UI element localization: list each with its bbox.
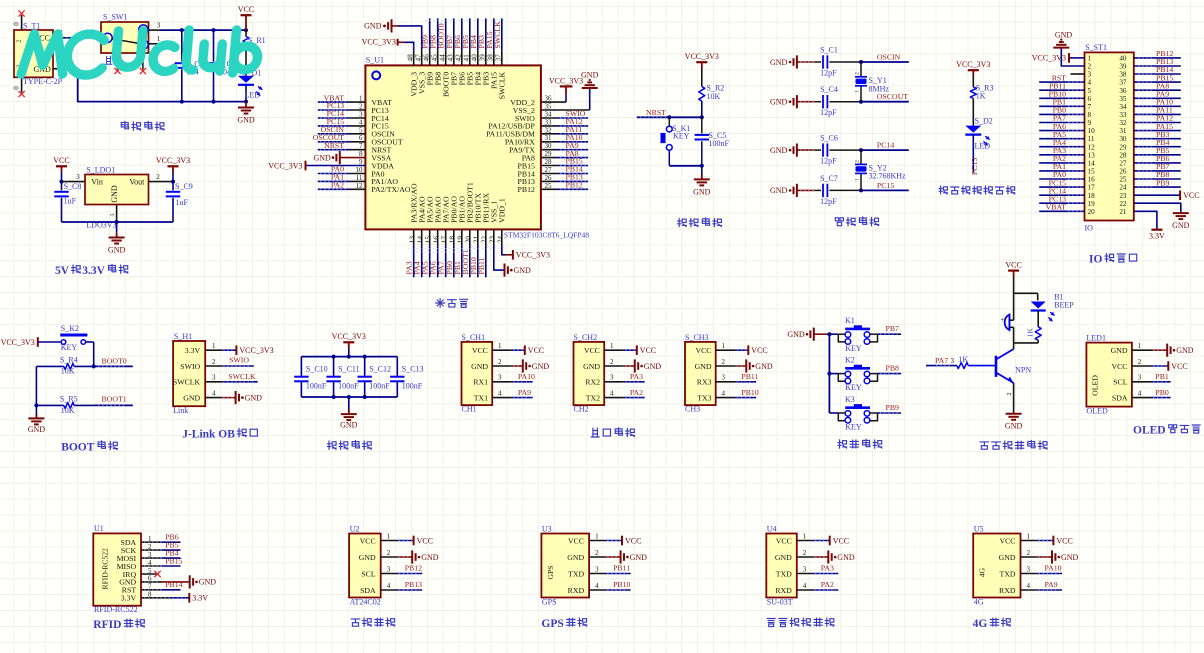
module U3 pin3 [589, 564, 631, 574]
wire VSS_3 to GND [398, 26, 422, 50]
svg-text:11: 11 [356, 174, 363, 182]
svg-text:S_C9: S_C9 [175, 182, 193, 191]
buzzer LS1 [1000, 293, 1013, 343]
module U2 pin4 [381, 580, 423, 590]
svg-text:GND: GND [770, 186, 788, 195]
no-ERC marker T1 top [19, 10, 25, 16]
title 复位电路 [678, 218, 722, 227]
alarm top rail [1014, 293, 1038, 300]
svg-text:3: 3 [803, 566, 807, 574]
svg-text:10: 10 [1088, 127, 1096, 135]
U1 module pin1 PB6 [141, 533, 181, 543]
svg-text:LED: LED [975, 142, 991, 151]
module U2 pin1 [381, 533, 433, 546]
wire VSS_2 to GND [589, 88, 591, 110]
svg-text:AT24C02: AT24C02 [350, 598, 381, 607]
connector CH3 pin2 [716, 358, 773, 373]
wire to Vin pin3 [62, 173, 86, 182]
svg-text:4: 4 [1138, 389, 1142, 397]
key S_K2 [60, 324, 93, 352]
svg-text:3: 3 [387, 566, 391, 574]
svg-text:1uF: 1uF [176, 198, 189, 207]
svg-text:VCC_3V3: VCC_3V3 [956, 60, 990, 69]
bottom rail of LDO [62, 221, 174, 223]
svg-text:6: 6 [1088, 95, 1092, 103]
svg-text:VCC: VCC [776, 536, 792, 545]
title 晶振电路 [835, 217, 879, 226]
svg-text:16: 16 [1088, 176, 1096, 184]
svg-text:32.768KHz: 32.768KHz [869, 172, 907, 181]
H1 pin3 SWCLK [222, 372, 258, 382]
svg-text:PB7: PB7 [886, 324, 900, 333]
junction LDO in [60, 180, 64, 184]
svg-text:VCC: VCC [568, 536, 584, 545]
svg-text:GND: GND [1172, 221, 1190, 230]
svg-text:J-Link OB: J-Link OB [182, 429, 235, 441]
svg-text:GPS: GPS [546, 566, 555, 580]
wire VSS_1 to GND [494, 245, 505, 270]
LED S_D1 [238, 69, 262, 102]
compile mask dashes chip bottom [408, 249, 500, 253]
svg-text:RX1: RX1 [473, 378, 488, 387]
svg-text:TXD: TXD [776, 569, 792, 578]
svg-text:+: + [1000, 316, 1004, 324]
svg-text:35: 35 [1119, 95, 1127, 103]
svg-text:1: 1 [212, 342, 216, 350]
connector CH1 body [462, 333, 493, 414]
svg-text:OLED: OLED [1086, 406, 1108, 415]
svg-text:100nF: 100nF [338, 381, 359, 390]
svg-text:SDA: SDA [360, 586, 376, 595]
module U1 RFID-RC522 body [93, 524, 141, 614]
U1 pin names [371, 72, 535, 223]
svg-text:4: 4 [1088, 79, 1092, 87]
title 串口电路 [591, 428, 635, 437]
svg-text:PB13: PB13 [405, 580, 422, 589]
capacitor S_C13 100nF [390, 357, 423, 397]
svg-text:VCC: VCC [833, 536, 849, 545]
module U2 pin3 [381, 564, 423, 574]
ground GND above ST1 pin2 [1053, 30, 1072, 47]
svg-text:OSCIN: OSCIN [877, 53, 901, 62]
svg-text:26: 26 [1119, 168, 1127, 176]
U1 module pin4 PB15 [141, 556, 183, 566]
svg-text:2: 2 [498, 358, 502, 366]
svg-text:17: 17 [1088, 184, 1096, 192]
svg-text:35: 35 [545, 103, 553, 111]
svg-text:GND: GND [770, 146, 788, 155]
junction K1 [827, 332, 831, 336]
H1 pin4 GND [222, 391, 262, 404]
svg-text:3: 3 [1138, 374, 1142, 382]
svg-text:1: 1 [595, 533, 599, 541]
ST1 right net labels [1138, 49, 1173, 187]
svg-text:2: 2 [359, 103, 363, 111]
title 电源电路 [121, 121, 164, 130]
svg-text:BEEP: BEEP [1054, 300, 1074, 309]
svg-text:S_C13: S_C13 [402, 364, 424, 373]
svg-text:13: 13 [1088, 151, 1096, 159]
svg-text:1: 1 [722, 342, 726, 350]
svg-text:TXD: TXD [568, 569, 584, 578]
svg-text:9: 9 [359, 158, 363, 166]
svg-text:19: 19 [1088, 200, 1096, 208]
connector CH2 pin4 [604, 388, 644, 398]
H1 pins [205, 342, 222, 398]
svg-text:VBAT: VBAT [1046, 203, 1067, 212]
svg-text:PB12: PB12 [518, 185, 535, 194]
svg-text:S_T1: S_T1 [23, 21, 40, 30]
svg-text:10K: 10K [61, 406, 75, 415]
connector CH3 pin3 [716, 372, 759, 382]
svg-text:4: 4 [610, 389, 614, 397]
svg-text:GND: GND [359, 553, 376, 562]
capacitor S_C5 100nF [695, 117, 730, 166]
svg-text:S_C7: S_C7 [820, 174, 838, 183]
svg-text:15: 15 [1088, 168, 1096, 176]
key S_K1 [661, 117, 691, 166]
power port VCC_3V3 reset [685, 52, 719, 87]
svg-text:20: 20 [1088, 208, 1096, 216]
svg-text:GPS: GPS [541, 618, 563, 630]
svg-text:IO: IO [1085, 224, 1094, 233]
svg-text:3.3V: 3.3V [192, 594, 208, 603]
title module U4 [767, 618, 834, 627]
wire VDD_1 to VCC_3V3 [502, 245, 505, 254]
svg-text:S_R4: S_R4 [60, 356, 78, 365]
svg-text:BOOT0: BOOT0 [102, 356, 127, 365]
power port VCC_3V3 at LDO out [156, 156, 190, 182]
title module U2 [351, 618, 395, 627]
junction C5 bottom [700, 164, 704, 168]
svg-text:11: 11 [1088, 135, 1095, 143]
svg-text:TX3: TX3 [697, 393, 711, 402]
MCU U1 STM32F103C8T6 body [365, 56, 589, 240]
svg-text:GND: GND [1055, 30, 1073, 39]
svg-text:33: 33 [545, 118, 553, 126]
ST1 pin21 wire to 3.3V [1134, 211, 1157, 229]
capacitor S_C6 12pF with PC14 [770, 134, 909, 166]
module U5 pin3 [1021, 564, 1063, 574]
svg-text:36: 36 [545, 95, 553, 103]
svg-text:VCC_3V3: VCC_3V3 [362, 38, 396, 47]
module U5 body [973, 524, 1020, 606]
svg-text:3: 3 [595, 566, 599, 574]
svg-text:30: 30 [545, 142, 553, 150]
module U4 pin1 [797, 533, 849, 546]
svg-text:LED: LED [245, 91, 261, 100]
no-ERC marker T1 bottom [19, 91, 25, 97]
svg-text:CH1: CH1 [462, 405, 477, 414]
svg-text:LED1: LED1 [1086, 333, 1106, 342]
svg-text:3: 3 [722, 374, 726, 382]
connector CH3 pin1 [716, 342, 768, 355]
svg-text:TX2: TX2 [586, 393, 600, 402]
svg-text:33: 33 [1119, 111, 1127, 119]
svg-text:3.3V: 3.3V [82, 265, 105, 277]
switch label 开关 [105, 56, 123, 64]
svg-text:IO: IO [1089, 254, 1102, 266]
svg-text:GND: GND [1061, 553, 1079, 562]
svg-text:VCC: VCC [751, 346, 767, 355]
svg-text:34: 34 [1119, 103, 1127, 111]
OLED pin2 VCC [1152, 361, 1188, 371]
svg-text:VCC: VCC [417, 536, 433, 545]
ST1 pin22 wire to GND [1134, 203, 1181, 213]
LED S_D2 [965, 117, 992, 173]
svg-text:12pF: 12pF [820, 197, 837, 206]
svg-text:29: 29 [545, 150, 553, 158]
svg-text:BOOT: BOOT [61, 442, 95, 454]
wire key to BOOT0 [93, 342, 95, 366]
svg-text:10K: 10K [61, 367, 75, 376]
svg-text:BOOT1: BOOT1 [102, 395, 127, 404]
svg-text:GND: GND [695, 362, 712, 371]
svg-text:32: 32 [545, 126, 553, 134]
power port 3.3V below ST1 [1149, 230, 1165, 241]
svg-text:PB10: PB10 [741, 388, 758, 397]
ground GND boot [28, 405, 46, 434]
svg-text:21: 21 [1119, 208, 1127, 216]
svg-text:SCL: SCL [1113, 378, 1128, 387]
capacitor S_C7 12pF with PC15 [770, 174, 909, 206]
svg-text:100nF: 100nF [306, 381, 327, 390]
connector T1 TYPE-C-2P [13, 15, 65, 93]
svg-text:3: 3 [212, 374, 216, 382]
module U4 pin3 [797, 564, 839, 574]
svg-text:PA10: PA10 [518, 372, 535, 381]
svg-text:8: 8 [1088, 111, 1092, 119]
svg-text:GND: GND [583, 362, 600, 371]
svg-text:S_LDO1: S_LDO1 [86, 165, 115, 174]
svg-text:1: 1 [387, 533, 391, 541]
svg-text:9: 9 [1088, 119, 1092, 127]
svg-text:28: 28 [545, 158, 553, 166]
svg-text:KEY: KEY [845, 423, 862, 432]
svg-text:VCC_3V3: VCC_3V3 [516, 251, 550, 260]
U1 module pin2 PB5 [141, 541, 181, 551]
ST1 pin2 wire to GND [1061, 48, 1084, 66]
capacitor S_C4 12pF with OSCOUT [770, 85, 909, 117]
ground GND below LDO [108, 222, 126, 255]
left vertical bus boot [35, 366, 37, 405]
svg-text:2: 2 [855, 72, 861, 75]
wire BOOT0 net [94, 356, 133, 366]
svg-text:GND: GND [421, 553, 439, 562]
svg-text:0: 0 [13, 86, 21, 90]
alarm bottom rail [1014, 342, 1039, 344]
regulator S_LDO1 LDO3V3 [85, 165, 149, 229]
ST1 pin1 wire VCC_3V3 [1032, 53, 1085, 63]
svg-text:TX1: TX1 [474, 393, 488, 402]
svg-text:VCC: VCC [625, 536, 641, 545]
power port VCC_3V3 at VDD_1 [505, 250, 550, 260]
svg-text:12: 12 [356, 182, 364, 190]
svg-text:1: 1 [803, 533, 807, 541]
svg-text:GND: GND [999, 553, 1016, 562]
power port VCC alarm [1005, 260, 1021, 293]
svg-text:SWCLK: SWCLK [493, 21, 502, 49]
svg-text:GND: GND [755, 362, 773, 371]
svg-text:RXD: RXD [568, 586, 585, 595]
svg-text:GND: GND [1005, 421, 1023, 430]
svg-text:S_C11: S_C11 [338, 364, 360, 373]
wire BOOT1 net [94, 395, 133, 406]
header S_H1 body [173, 332, 205, 415]
svg-text:30: 30 [1119, 135, 1127, 143]
svg-text:12pF: 12pF [820, 108, 837, 117]
svg-text:PA2: PA2 [821, 580, 834, 589]
wire key to gnd rail [669, 165, 702, 167]
U1 right pins [541, 95, 590, 190]
svg-text:PA3: PA3 [821, 564, 834, 573]
capacitor S_C12 100nF [358, 357, 391, 397]
svg-text:RFID-RC522: RFID-RC522 [94, 605, 138, 614]
junction VCC node [244, 28, 248, 32]
module U4 pin4 [797, 580, 839, 590]
svg-text:4G: 4G [974, 598, 984, 607]
svg-text:SWIO: SWIO [180, 362, 200, 371]
svg-text:2: 2 [1138, 358, 1142, 366]
svg-text:1: 1 [855, 90, 861, 93]
svg-text:4G: 4G [978, 567, 987, 577]
svg-text:2: 2 [1088, 63, 1092, 71]
svg-text:4: 4 [722, 389, 726, 397]
svg-text:Link: Link [173, 406, 188, 415]
svg-text:GND: GND [567, 553, 584, 562]
H1 pin1 VCC_3V3 [222, 345, 274, 355]
svg-text:PA3: PA3 [630, 372, 643, 381]
svg-text:GND: GND [183, 393, 200, 402]
svg-text:GND: GND [644, 362, 662, 371]
svg-text:VCC: VCC [640, 346, 656, 355]
svg-text:OLED: OLED [1091, 375, 1100, 396]
svg-text:PA7: PA7 [935, 356, 948, 365]
transistor Q1 NPN [996, 349, 1031, 383]
svg-text:U4: U4 [767, 524, 777, 533]
module U3 pin2 [589, 549, 647, 563]
svg-text:GND: GND [108, 246, 126, 255]
connector CH1 pin4 [492, 388, 532, 398]
svg-text:2: 2 [595, 549, 599, 557]
svg-text:RXD: RXD [999, 586, 1016, 595]
ST1 pin numbers [1088, 55, 1127, 216]
svg-text:2: 2 [387, 549, 391, 557]
U1 left net labels [313, 93, 346, 189]
svg-text:S_SW1: S_SW1 [103, 13, 127, 22]
svg-text:CH2: CH2 [574, 405, 589, 414]
wire VDD_2 to VCC_3V3 [565, 94, 567, 102]
junction K2 [827, 372, 831, 376]
svg-text:10K: 10K [707, 92, 721, 101]
resistor 1K vertical alarm [1025, 311, 1041, 343]
svg-text:RX2: RX2 [585, 378, 600, 387]
module U4 pin2 [797, 549, 855, 563]
svg-text:S_R5: S_R5 [60, 395, 78, 404]
svg-text:2: 2 [855, 160, 861, 163]
svg-text:PB9: PB9 [1156, 178, 1170, 187]
svg-text:25: 25 [545, 182, 553, 190]
svg-text:4: 4 [498, 389, 502, 397]
U1 bottom pins [408, 229, 505, 277]
svg-text:0: 0 [13, 22, 21, 26]
svg-text:KEY: KEY [845, 383, 862, 392]
svg-text:VCC: VCC [695, 346, 711, 355]
svg-text:PB0: PB0 [1155, 388, 1169, 397]
key K3 [829, 395, 901, 432]
U1 module pin7 RST PB14 [141, 580, 183, 590]
svg-text:3: 3 [951, 357, 955, 365]
svg-text:5: 5 [359, 126, 363, 134]
svg-text:S_CH1: S_CH1 [462, 333, 486, 342]
svg-text:31: 31 [545, 134, 553, 142]
svg-text:S_C6: S_C6 [820, 134, 838, 143]
svg-text:36: 36 [1119, 87, 1127, 95]
svg-text:VCC: VCC [53, 156, 69, 165]
svg-text:TXD: TXD [999, 569, 1015, 578]
svg-text:39: 39 [1119, 63, 1127, 71]
svg-text:S_CH2: S_CH2 [574, 333, 598, 342]
display LED1 OLED body [1086, 333, 1132, 415]
svg-text:GND: GND [237, 116, 255, 125]
svg-text:U1: U1 [94, 524, 104, 533]
svg-text:RFID: RFID [93, 619, 121, 631]
svg-text:4G: 4G [973, 618, 988, 630]
svg-text:PB11: PB11 [477, 257, 486, 274]
svg-text:VCC: VCC [360, 536, 376, 545]
svg-text:SWCLK: SWCLK [228, 372, 256, 381]
svg-text:100nF: 100nF [709, 139, 730, 148]
svg-text:GND: GND [364, 22, 382, 31]
module U2 body [349, 524, 381, 606]
svg-text:GND: GND [1176, 346, 1194, 355]
power port VCC_3V3 at VDDA pin9 [268, 161, 305, 171]
svg-text:1K: 1K [958, 355, 968, 364]
ground GND alarm [1005, 414, 1023, 431]
svg-text:5: 5 [1088, 87, 1092, 95]
svg-text:27: 27 [1119, 160, 1127, 168]
resistor S_R1 1K [243, 30, 266, 76]
ST1 left pins [1039, 74, 1084, 211]
svg-text:PB8: PB8 [886, 364, 900, 373]
OLED pin1 GND [1152, 344, 1194, 357]
svg-text:VCC: VCC [238, 5, 254, 14]
svg-text:2: 2 [156, 173, 160, 181]
svg-text:SDA: SDA [1112, 393, 1128, 402]
svg-text:3: 3 [610, 374, 614, 382]
svg-text:24: 24 [496, 236, 505, 244]
compile mask dashes chip top [400, 21, 506, 47]
svg-text:VCC_3V3: VCC_3V3 [156, 156, 190, 165]
svg-text:GND: GND [770, 98, 788, 107]
U1 left pins [306, 95, 366, 190]
OLED pin4 PB0 [1152, 388, 1171, 398]
connector CH2 pin1 [604, 342, 656, 355]
U1 module pin5 IRQ no-connect [141, 571, 161, 577]
svg-text:PB12: PB12 [405, 564, 422, 573]
svg-text:1: 1 [855, 178, 861, 181]
junction LDO out [171, 180, 175, 184]
svg-text:GND: GND [532, 362, 550, 371]
svg-text:PA9: PA9 [518, 388, 531, 397]
svg-text:VCC: VCC [1056, 536, 1072, 545]
connector CH3 body [685, 333, 716, 414]
svg-text:SWIO: SWIO [229, 356, 249, 365]
svg-text:GND: GND [110, 185, 119, 203]
switch S_SW1 [101, 13, 161, 70]
keys left bus [828, 334, 830, 413]
svg-text:SU-03T: SU-03T [767, 598, 793, 607]
